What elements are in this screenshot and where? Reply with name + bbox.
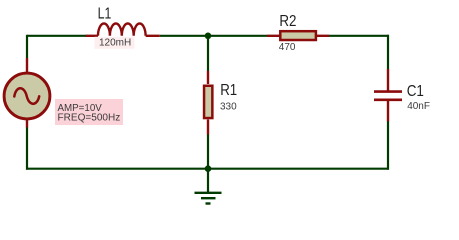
capacitor C1 [374,69,402,121]
wire left vertical upper (to source) [26,35,28,58]
svg-text:C1: C1 [407,83,424,100]
wire bottom horizontal [26,168,389,170]
wire middle vertical upper (node A to R1) [207,35,209,71]
resistor R2 [267,31,329,40]
wire top-right segment (R2 to right corner) [329,35,389,37]
svg-text:330: 330 [220,102,237,113]
wire middle vertical lower (R1 to node B) [207,134,209,169]
wire right vertical lower (C1 to bottom) [387,121,389,170]
wire top-middle segment (L1 to node A) [160,35,267,37]
svg-text:L1: L1 [98,6,112,23]
svg-text:120mH: 120mH [99,38,131,49]
inductor L1 [86,23,160,35]
svg-text:470: 470 [279,42,296,53]
AC source V1 [4,58,50,128]
source script label AMP/FREQ [55,99,123,125]
svg-text:R1: R1 [220,82,237,99]
svg-text:R2: R2 [279,13,296,30]
wire top-left horizontal segment [27,35,86,37]
L1 value highlight [95,37,135,49]
ground [195,169,222,204]
svg-text:40nF: 40nF [407,101,430,112]
wire right vertical upper (to C1) [387,35,389,69]
svg-text:FREQ=500Hz: FREQ=500Hz [58,113,121,124]
node B junction dot [205,165,212,172]
wire left vertical lower (source to bottom) [26,127,28,170]
node A junction dot [205,33,212,40]
resistor R1 [204,71,212,135]
